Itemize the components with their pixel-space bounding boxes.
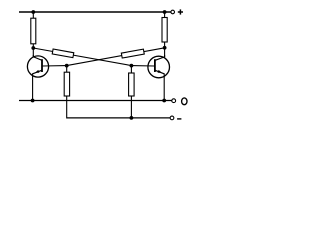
transistor Q1 emitter arrow [35, 70, 39, 73]
transistor Q2 emitter arrow [158, 70, 162, 73]
resistor R4 (right cross-coupling, slanted) [121, 49, 144, 58]
transistor Q2 collector lead [155, 55, 165, 60]
transistor Q2 base bar [154, 59, 156, 72]
transistor Q1 (left, circle body) [27, 56, 48, 77]
node: top rail / right collector junction [163, 10, 167, 14]
wire: left cross-coupling diagonal (left collector to right base) [33, 48, 131, 66]
label: O [182, 98, 187, 105]
resistor R6 (right base bias) [129, 73, 135, 96]
node: left base junction [65, 64, 69, 68]
node: top rail / left collector junction [31, 10, 35, 14]
wire: bottom bias rail [67, 117, 170, 119]
transistor Q2 emitter lead [155, 70, 164, 100]
label: - [177, 118, 181, 120]
resistor R2 (right collector load) [162, 18, 167, 43]
wire: left collector column [32, 12, 34, 57]
wire: right collector column [164, 12, 166, 57]
node: right emitter / mid rail junction [162, 99, 166, 103]
transistor Q2 base lead [131, 65, 154, 67]
wire: top supply rail [19, 11, 171, 13]
terminal: - bias [170, 116, 174, 120]
node: right collector junction [163, 46, 167, 50]
wire: right base column down to bias rail [130, 66, 132, 118]
transistor Q1 base lead [43, 65, 67, 67]
node: right base resistor / bias rail junction [130, 116, 134, 120]
resistor R1 (left collector load) [31, 18, 36, 44]
terminal: 0 common [172, 99, 176, 103]
resistor R3 (left cross-coupling, slanted) [52, 49, 74, 58]
node: left emitter / mid rail junction [31, 99, 35, 103]
terminal: + supply [171, 10, 175, 14]
node: left collector junction [31, 46, 35, 50]
transistor Q1 emitter lead [33, 70, 42, 100]
wire: right cross-coupling diagonal (right collector to left base) [67, 48, 165, 66]
transistor Q2 (right, circle body) [148, 56, 170, 78]
label: + [178, 9, 183, 14]
resistor R5 (left base bias) [64, 72, 69, 96]
wire: left base column down to bias rail corner [66, 66, 68, 119]
wire: mid common rail [19, 100, 172, 102]
node: right base junction [130, 64, 134, 68]
transistor Q1 collector lead [33, 55, 42, 60]
transistor Q1 base bar [41, 59, 43, 72]
